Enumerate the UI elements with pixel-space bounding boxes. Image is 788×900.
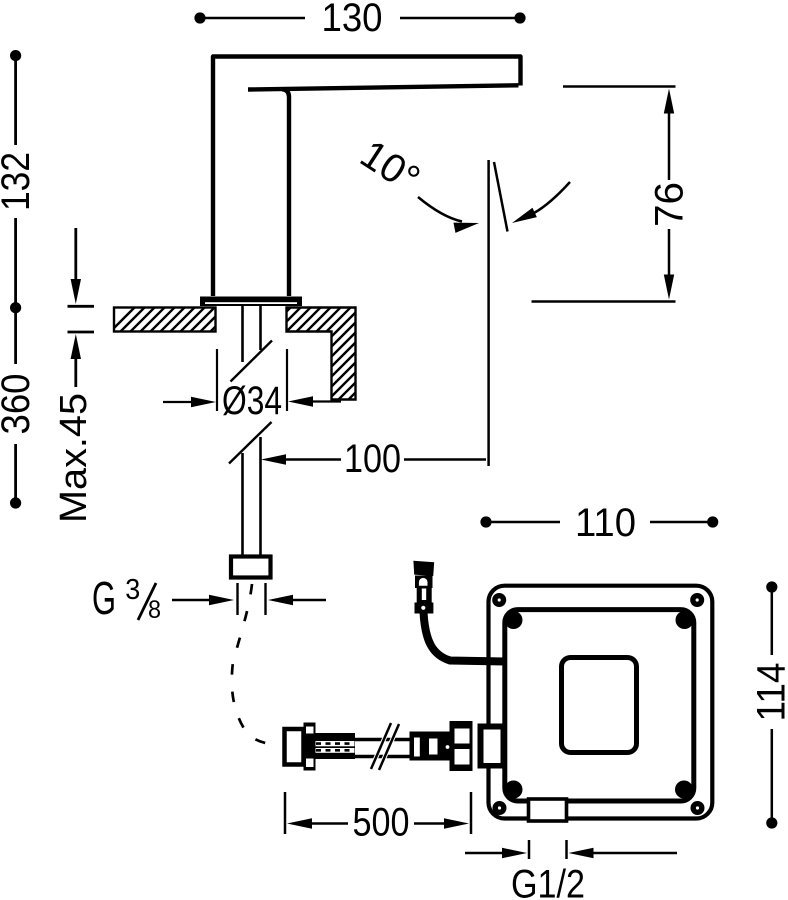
control box outer shell (489, 586, 713, 819)
control box left hose port (478, 724, 505, 769)
dimension 114 (box height) (766, 581, 777, 828)
control box bottom port (529, 799, 567, 821)
pipe break slash lower (229, 422, 272, 464)
svg-text:G1/2: G1/2 (511, 863, 585, 900)
svg-text:100: 100 (344, 437, 401, 481)
svg-text:Max.45: Max.45 (53, 393, 95, 523)
svg-text:360: 360 (0, 374, 38, 435)
svg-text:500: 500 (353, 801, 410, 845)
dimension G1/2 (bottom port) (465, 840, 677, 859)
hose braided section (315, 733, 355, 759)
angle arc right with arrow (534, 182, 570, 213)
control box inner cover (505, 610, 694, 801)
hose end fittings (410, 732, 452, 761)
svg-text:130: 130 (322, 0, 383, 40)
faucet base plate (200, 297, 302, 307)
faucet body outline (213, 57, 521, 297)
counter cross-section right slab with leg (287, 308, 356, 400)
dimension 130 (top width) (194, 12, 525, 23)
svg-text:G: G (92, 572, 116, 624)
svg-text:10°: 10° (353, 132, 428, 202)
svg-text:132: 132 (0, 152, 38, 211)
hose flange left (304, 723, 316, 771)
svg-text:8: 8 (148, 596, 161, 624)
svg-text:Ø34: Ø34 (222, 379, 282, 423)
supply pipe shank (243, 306, 261, 556)
control box center window (562, 658, 637, 753)
angle arc left with arrow (418, 197, 462, 222)
dimension G3/8 arrows (172, 583, 326, 615)
svg-text:110: 110 (575, 501, 636, 545)
hose nut left (285, 729, 304, 765)
tilted stream line 10 degrees (494, 162, 508, 232)
flexible hose dashed curve (232, 584, 279, 745)
dimension Max.45 (counter thickness) (68, 228, 95, 387)
water stream reference line (487, 160, 490, 466)
counter cross-section left slab (114, 308, 216, 332)
label G 3/8 (92, 572, 161, 624)
dimension 100 (spout reach) (281, 458, 486, 461)
dimension O34 (hole diameter) (163, 349, 341, 411)
dimension 132 (left upper) (10, 50, 21, 308)
control box outer screws (495, 596, 702, 813)
sensor cable (424, 612, 506, 662)
control box inner screws (505, 611, 694, 799)
G3/8 pipe end fitting (231, 557, 271, 578)
dimension 110 (box width) (480, 516, 718, 527)
hose tube section with break (355, 723, 438, 770)
hose nut right (450, 721, 473, 771)
svg-text:3: 3 (125, 574, 140, 606)
svg-text:114: 114 (749, 663, 788, 722)
dimension 500 (hose length) (285, 792, 471, 834)
pipe break slash upper (231, 341, 273, 382)
dimension 76 (spout height) (532, 87, 676, 302)
svg-text:76: 76 (648, 182, 692, 227)
sensor connector (413, 561, 434, 614)
dimension 360 (left lower) (10, 302, 21, 509)
